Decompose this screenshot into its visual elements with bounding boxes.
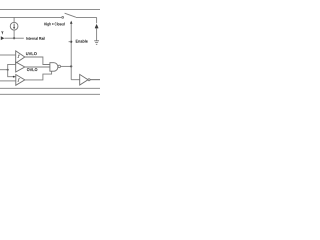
op-amp UVLO comparator — [16, 51, 25, 63]
op-amp OVLO comparator — [16, 62, 25, 72]
wire third comparator output staircase — [25, 71, 52, 80]
node gate output junction — [70, 65, 72, 67]
label UVLO — [26, 52, 37, 55]
node enable label junction — [70, 41, 72, 43]
label High = Closed — [44, 22, 64, 26]
wire top rail — [0, 9, 100, 11]
wire bottom rail — [0, 87, 100, 89]
wire internal rail stub — [14, 37, 24, 39]
wire UVLO output with step — [25, 57, 50, 65]
label OVLO — [27, 68, 37, 71]
label Enable — [76, 40, 88, 43]
diode D1 — [95, 24, 98, 29]
op-amp third comparator — [16, 75, 25, 86]
wire junction up to OVLO comparator input — [8, 64, 16, 69]
current source I1 — [10, 22, 18, 30]
wire control to buffer — [71, 79, 80, 81]
gate U1 NAND — [50, 63, 58, 71]
switch S1 contact circle — [62, 17, 64, 19]
wire buffer output — [90, 79, 100, 81]
pin EN input arrow — [1, 36, 5, 40]
op-amp output buffer — [80, 74, 88, 85]
wire second rail left segment — [0, 16, 62, 18]
wire UVLO input — [0, 54, 16, 56]
wire gate output — [61, 65, 72, 67]
switch control arrowhead — [70, 21, 73, 24]
wire third comparator lower input — [0, 80, 16, 82]
wire diode branch upper — [96, 17, 98, 23]
wire enable stub — [69, 41, 72, 43]
switch S1 blade — [65, 13, 76, 17]
wire second rail right segment — [76, 16, 97, 18]
wire junction down to third comparator input — [8, 70, 16, 77]
wire OVLO output — [25, 66, 50, 68]
wire bottom border — [0, 93, 100, 95]
node third comparator input junction — [13, 76, 15, 78]
node input junction — [7, 69, 9, 71]
wire current source bottom — [13, 30, 15, 38]
wire switch control vertical — [70, 23, 72, 79]
node EN junction — [13, 37, 15, 39]
label Internal Rail — [26, 37, 45, 40]
wire diode to ground — [96, 28, 98, 40]
ground — [94, 41, 99, 45]
wire EN pin to junction — [4, 37, 14, 39]
wire left input net — [0, 69, 8, 71]
pin EN tiny mark — [2, 31, 3, 34]
gate U1 bubble — [58, 65, 61, 68]
buffer bubble — [88, 79, 90, 81]
wire current source top — [13, 17, 15, 22]
